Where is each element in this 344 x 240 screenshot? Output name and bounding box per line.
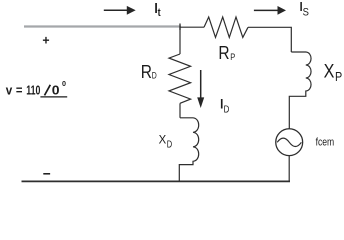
svg-text:0: 0 [62,81,66,88]
svg-text:X: X [159,133,167,147]
node A: junction tick on top wire [179,24,181,31]
wire: bottom rail [22,180,291,182]
phasor angle slash [45,85,51,96]
wire: RD bottom to XD top [179,103,181,118]
svg-text:=: = [16,83,23,98]
svg-text:P: P [230,52,235,63]
svg-text:D: D [167,138,173,150]
source fcem (AC source circle) [276,129,303,156]
wire: RP right lead to top-right corner [248,27,291,52]
label RP [218,43,235,63]
label XP [324,61,343,85]
svg-text:D: D [224,103,230,115]
svg-text:R: R [141,62,152,82]
svg-text:fcem: fcem [316,137,335,149]
inductor XP (coil, bumps right) [289,52,311,129]
svg-text:R: R [218,43,229,63]
sine wave inside fcem [277,138,301,146]
label Is [300,0,309,19]
svg-text:D: D [152,71,157,82]
label XD [159,133,173,151]
arrow Is (current arrow after RP) [254,6,286,15]
wire: fcem bottom to bottom rail [288,156,290,182]
svg-text:110: 110 [26,83,40,98]
wire: junction down to RD [179,27,181,55]
svg-text:t: t [158,7,161,19]
label v = 110 / 0 (source voltage phasor) [6,81,67,98]
underline of phasor angle [40,96,67,98]
resistor RP (horizontal zigzag) [204,17,248,37]
svg-text:0: 0 [52,83,60,98]
label RD [141,62,157,82]
wire: top-left horizontal (gray) [24,25,181,27]
arrow It (current arrow on top wire) [104,6,136,15]
arrow ID (current arrow down middle branch) [197,70,204,108]
svg-text:S: S [303,7,309,19]
label ID [220,96,230,116]
svg-text:−: − [43,165,51,181]
label It [154,0,160,19]
svg-text:v: v [6,83,13,98]
svg-text:X: X [324,61,335,83]
inductor XD (coil, bumps right) [179,118,198,182]
resistor RD (vertical zigzag) [169,54,191,103]
wire: junction to RP left lead [180,26,204,28]
svg-text:P: P [335,69,342,84]
svg-text:+: + [42,33,50,48]
